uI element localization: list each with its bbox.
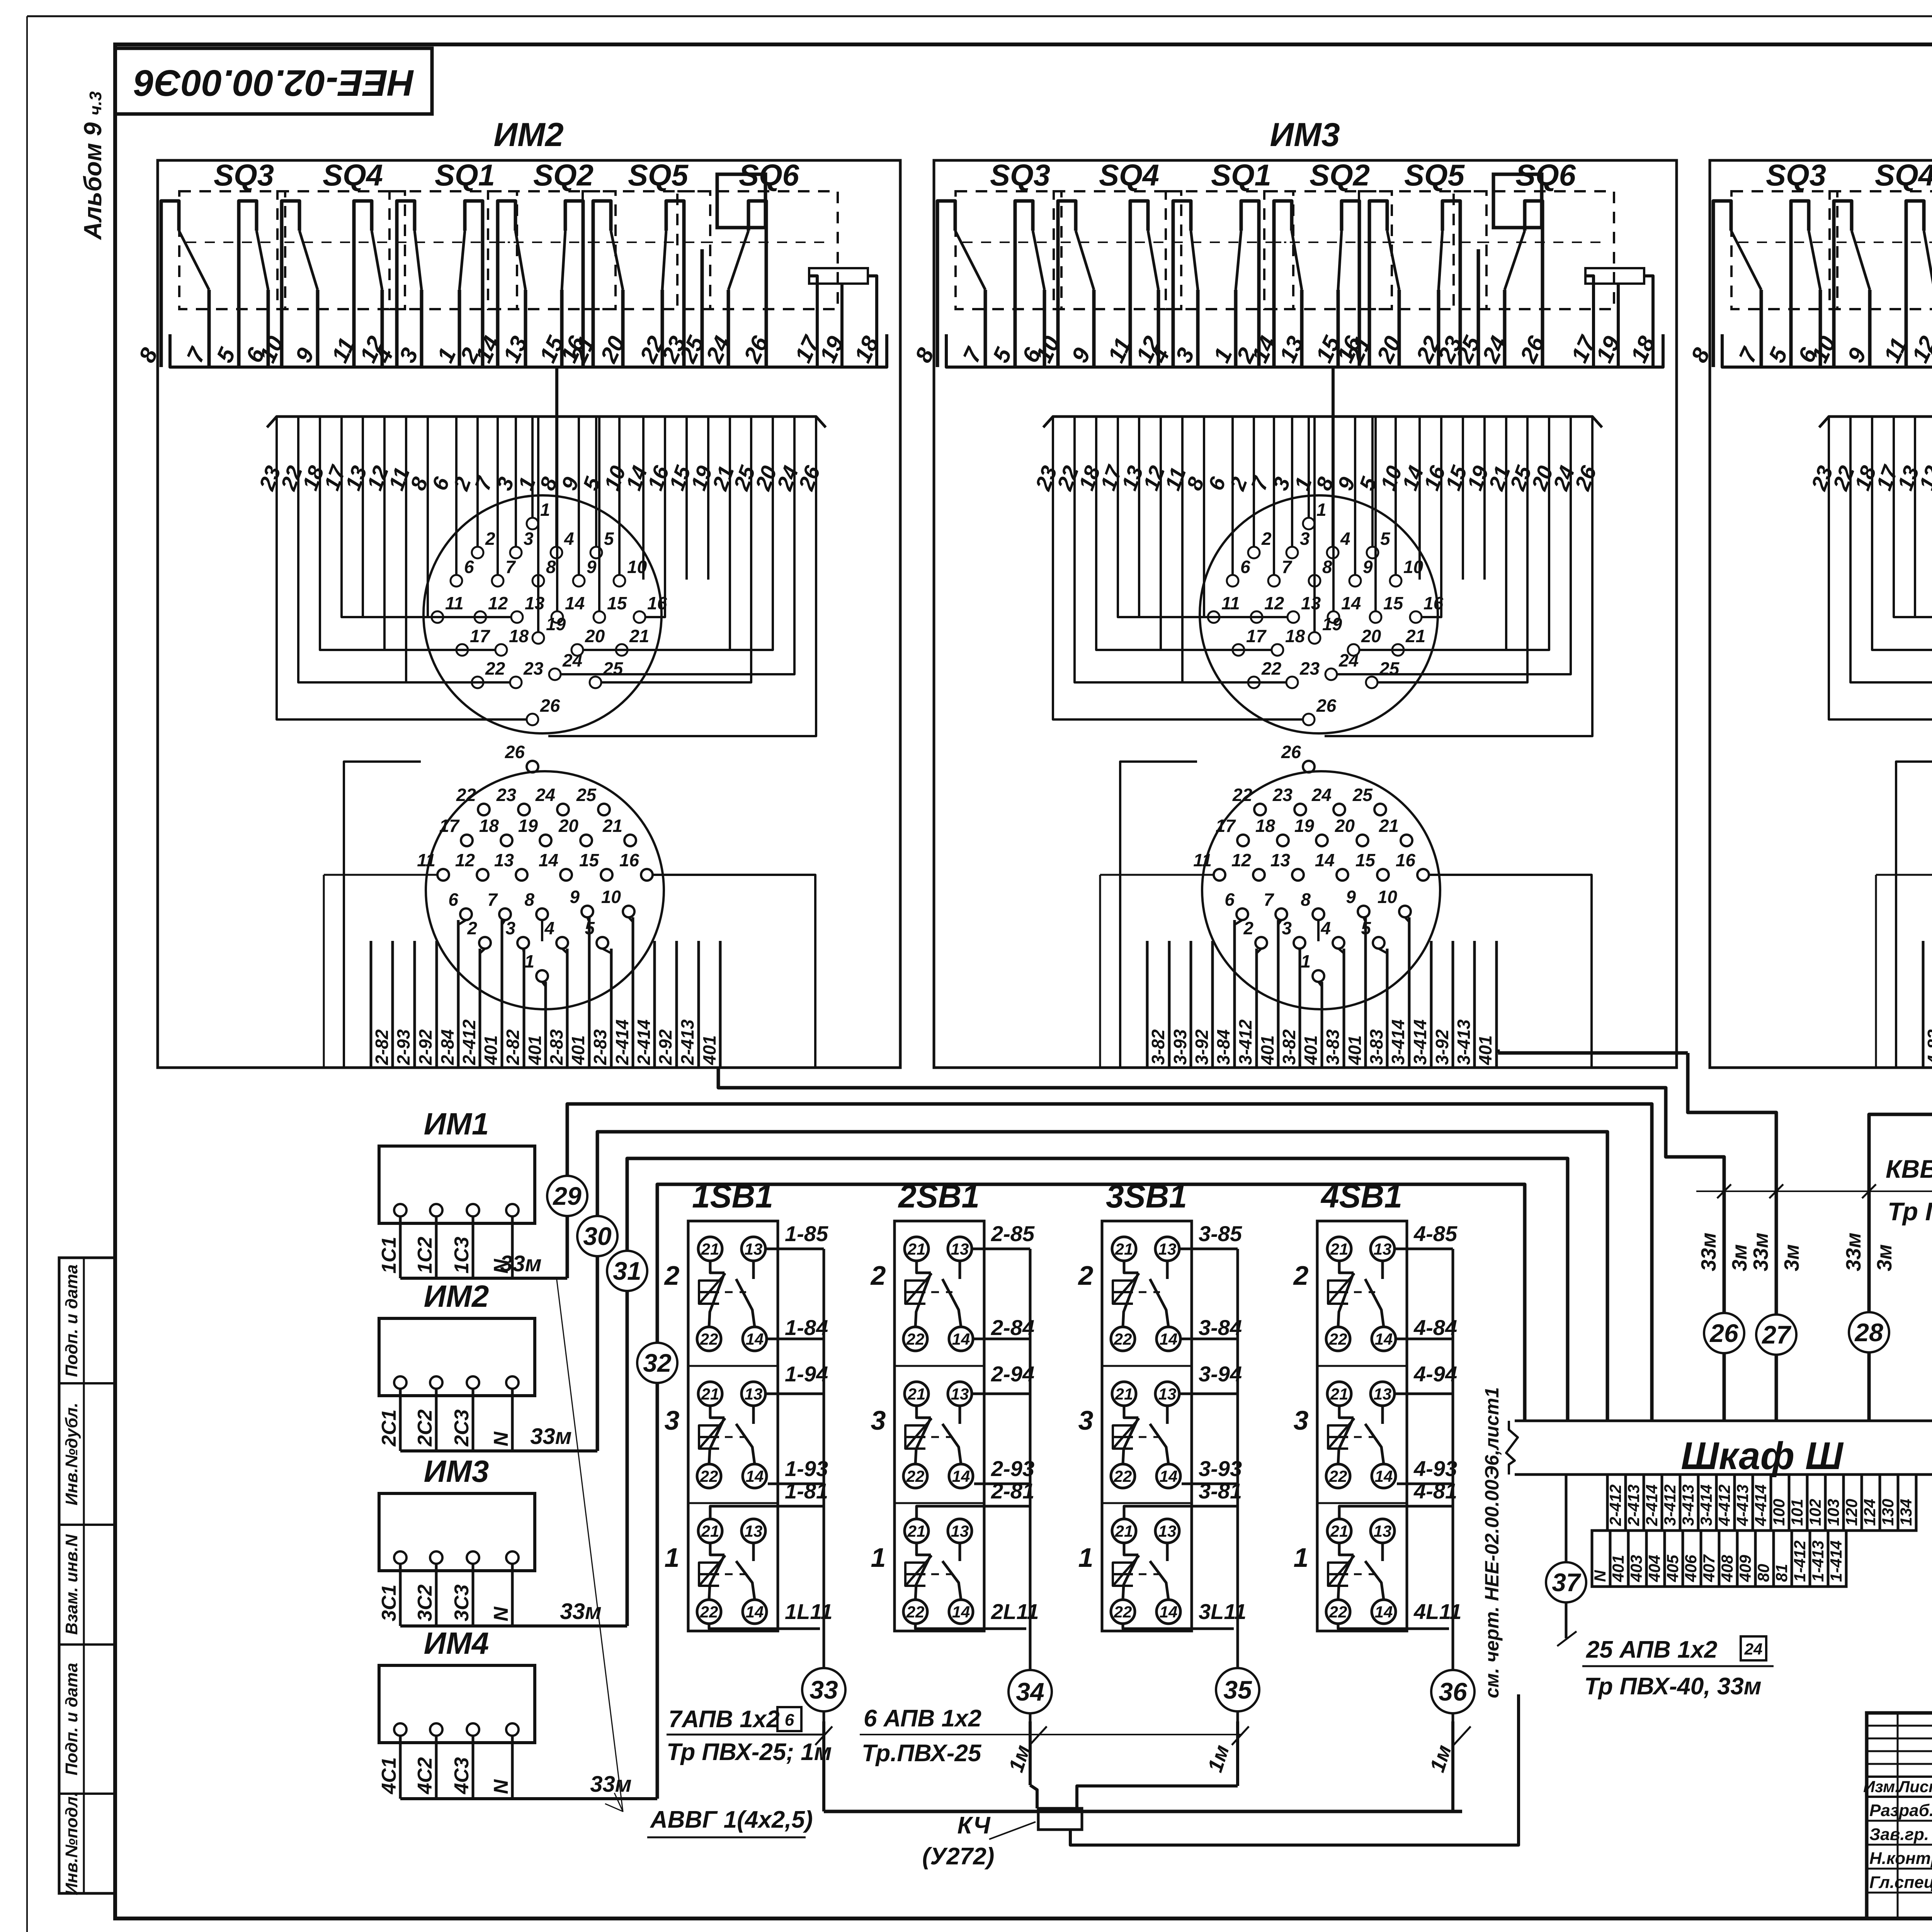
- svg-text:9: 9: [1363, 557, 1373, 577]
- pin 7 of lower connector ИМ2: [499, 908, 511, 920]
- svg-text:Тр.ПВХ-25: Тр.ПВХ-25: [862, 1740, 982, 1767]
- svg-text:4-412: 4-412: [1715, 1485, 1733, 1526]
- svg-text:11: 11: [1221, 593, 1240, 613]
- cabinet Шкаф Ш: [1515, 1421, 1932, 1475]
- svg-text:SQ4: SQ4: [1875, 158, 1932, 192]
- pin 2 of upper connector ИМ2: [472, 547, 483, 558]
- svg-text:Лист: Лист: [1897, 1777, 1932, 1796]
- svg-text:37: 37: [1552, 1568, 1582, 1597]
- pin 5 of lower connector ИМ3: [1373, 937, 1384, 949]
- svg-text:100: 100: [1770, 1499, 1788, 1526]
- pin 16 of lower connector ИМ2: [641, 869, 653, 881]
- svg-text:26: 26: [1316, 696, 1337, 716]
- pin 4 of lower connector ИМ2: [556, 937, 568, 949]
- actuator of section 3 of 1SB1: [699, 1425, 719, 1449]
- svg-text:3м: 3м: [1780, 1244, 1803, 1271]
- pin 18 of lower connector ИМ2: [501, 835, 512, 846]
- pin 6 of upper connector ИМ2: [451, 575, 462, 587]
- title block header row Изм Лист Ндокум Подп Дата: [1867, 1776, 1932, 1778]
- svg-text:1: 1: [665, 1543, 680, 1573]
- svg-text:25: 25: [1352, 785, 1373, 805]
- pin 7 of lower connector ИМ3: [1276, 908, 1287, 920]
- wire bundle bracket of ИМ3: [1043, 417, 1602, 427]
- svg-text:29: 29: [552, 1182, 582, 1210]
- terminal 2С2 of ИМ2: [430, 1376, 442, 1389]
- terminal 2С3 of ИМ2: [467, 1376, 479, 1389]
- svg-text:1-412: 1-412: [1791, 1541, 1809, 1582]
- svg-text:3-82: 3-82: [1279, 1029, 1299, 1065]
- pin 21 of upper connector ИМ3: [1392, 644, 1404, 656]
- terminal 2С1 of ИМ2: [394, 1376, 406, 1389]
- terminal 1С2 of ИМ1: [430, 1204, 442, 1216]
- outgoing bus of ИМ3: [400, 1624, 627, 1628]
- bottom bus of ИМ3: [946, 334, 1663, 367]
- contact section 1 of 2SB1: [895, 1502, 984, 1504]
- svg-text:20: 20: [585, 626, 605, 646]
- svg-text:409: 409: [1736, 1554, 1754, 1582]
- svg-text:1: 1: [1294, 1543, 1309, 1573]
- pin 14 of lower connector ИМ3: [1337, 869, 1348, 881]
- svg-text:2: 2: [485, 529, 495, 549]
- svg-text:15: 15: [607, 593, 628, 613]
- title block small grid rows: [1867, 1725, 1932, 1727]
- svg-text:21: 21: [701, 1385, 719, 1403]
- pin 10 of lower connector ИМ2: [623, 906, 634, 917]
- pin 18 of lower connector ИМ3: [1277, 835, 1289, 846]
- pin 12 of lower connector ИМ2: [477, 869, 488, 881]
- riser run from ИМ2 box (marker 30) to cabinet: [597, 1132, 1607, 1451]
- terminal 3С1 of ИМ3: [394, 1551, 406, 1564]
- svg-text:23: 23: [523, 658, 544, 679]
- actuator of section 3 of 2SB1: [905, 1425, 925, 1449]
- harness outline around lower connector of ИМ3: [1120, 762, 1197, 1068]
- svg-text:1: 1: [1316, 500, 1327, 520]
- svg-text:14: 14: [1375, 1467, 1393, 1485]
- svg-text:1С1: 1С1: [378, 1237, 400, 1274]
- svg-text:22: 22: [1329, 1467, 1347, 1485]
- svg-text:2-82: 2-82: [372, 1029, 392, 1065]
- unit block ИМ4: [1710, 160, 1932, 1068]
- svg-text:407: 407: [1700, 1554, 1718, 1582]
- svg-text:(У272): (У272): [922, 1843, 995, 1870]
- svg-text:3L11: 3L11: [1199, 1599, 1246, 1624]
- pin 2 of lower connector ИМ2: [479, 937, 491, 949]
- diagonal cable leader across risers: [556, 1277, 623, 1811]
- pin 5 of upper connector ИМ3: [1367, 547, 1378, 558]
- svg-text:2-83: 2-83: [590, 1029, 610, 1065]
- svg-text:19: 19: [1322, 614, 1342, 634]
- svg-text:7: 7: [1264, 889, 1274, 910]
- lower connector circle of ИМ3: [1202, 771, 1440, 1009]
- svg-text:21: 21: [907, 1240, 926, 1258]
- svg-text:102: 102: [1806, 1499, 1824, 1526]
- wires from SB columns to bottom bus: [822, 1721, 825, 1811]
- svg-text:13: 13: [951, 1522, 969, 1540]
- svg-text:ИМ2: ИМ2: [424, 1279, 489, 1313]
- svg-text:33м: 33м: [1749, 1233, 1772, 1271]
- pin 8 of lower connector ИМ3: [1313, 908, 1324, 920]
- svg-text:2SB1: 2SB1: [898, 1178, 980, 1214]
- svg-text:25: 25: [576, 785, 597, 805]
- svg-text:9: 9: [570, 887, 580, 907]
- pin 22 of lower connector ИМ3: [1254, 804, 1266, 815]
- svg-text:2-93: 2-93: [991, 1456, 1034, 1481]
- svg-text:SQ1: SQ1: [435, 158, 495, 192]
- cable marker 28: [1849, 1312, 1889, 1352]
- contact section 3 of 2SB1: [895, 1365, 984, 1367]
- svg-text:2: 2: [1243, 918, 1253, 938]
- svg-text:4-82: 4-82: [1924, 1029, 1932, 1065]
- wire bundle bracket of ИМ4: [1819, 417, 1932, 427]
- svg-text:3-85: 3-85: [1199, 1221, 1242, 1246]
- svg-text:5: 5: [1380, 529, 1391, 549]
- pin 4 of upper connector ИМ2: [551, 547, 562, 558]
- svg-text:21: 21: [1330, 1240, 1349, 1258]
- contact section 3 of 4SB1: [1317, 1365, 1407, 1367]
- svg-text:КВВГ19х1: КВВГ19х1: [1886, 1155, 1932, 1183]
- svg-text:Тр ПВХ-25; 1м: Тр ПВХ-25; 1м: [667, 1739, 832, 1765]
- actuator of section 1 of 1SB1: [699, 1563, 719, 1586]
- pin 26 of upper connector ИМ3: [1303, 714, 1315, 725]
- svg-text:25: 25: [1379, 658, 1400, 679]
- terminal N of ИМ1: [506, 1204, 519, 1216]
- svg-text:11: 11: [1193, 850, 1212, 870]
- terminal N of ИМ2: [506, 1376, 519, 1389]
- pin 15 of upper connector ИМ3: [1370, 611, 1381, 623]
- actuator of section 2 of 1SB1: [699, 1281, 719, 1304]
- svg-text:N: N: [490, 1606, 512, 1621]
- svg-text:SQ5: SQ5: [628, 158, 689, 192]
- svg-text:401: 401: [481, 1035, 501, 1065]
- actuator of section 2 of 2SB1: [905, 1281, 925, 1304]
- terminal resistor of ИМ2: [809, 268, 868, 284]
- contact section 1 of 4SB1: [1317, 1502, 1407, 1504]
- cable marker 31: [607, 1251, 647, 1291]
- outgoing bus of ИМ1: [400, 1277, 567, 1280]
- svg-text:27: 27: [1761, 1320, 1792, 1349]
- svg-text:13: 13: [745, 1240, 763, 1258]
- contact section 1 of 3SB1: [1102, 1502, 1192, 1504]
- svg-text:19: 19: [1294, 816, 1315, 836]
- svg-text:ИМ1: ИМ1: [424, 1107, 489, 1141]
- pin 3 of upper connector ИМ2: [510, 547, 522, 558]
- svg-text:22: 22: [700, 1603, 718, 1621]
- pin 11 of lower connector ИМ3: [1214, 869, 1225, 881]
- svg-text:23: 23: [496, 785, 517, 805]
- pin 12 of upper connector ИМ2: [474, 611, 486, 623]
- svg-text:4: 4: [1340, 529, 1350, 549]
- pin 25 of lower connector ИМ2: [598, 804, 610, 815]
- SQ6 head box of ИМ2: [717, 174, 765, 228]
- svg-text:3: 3: [665, 1405, 680, 1435]
- pin 1 of lower connector ИМ2: [536, 970, 548, 982]
- svg-text:Инв.№дубл.: Инв.№дубл.: [62, 1403, 81, 1505]
- svg-text:3: 3: [1300, 529, 1310, 549]
- svg-text:33: 33: [810, 1675, 838, 1704]
- pin 20 of lower connector ИМ2: [580, 835, 592, 846]
- contact out wires of 3SB1: [1179, 1248, 1238, 1250]
- pin 11 of lower connector ИМ2: [437, 869, 449, 881]
- svg-text:17: 17: [470, 626, 491, 646]
- svg-text:4L11: 4L11: [1413, 1599, 1461, 1624]
- svg-text:11: 11: [417, 850, 435, 870]
- pin 26 of lower connector ИМ3: [1303, 761, 1315, 772]
- svg-text:4-94: 4-94: [1413, 1362, 1457, 1386]
- svg-text:SQ3: SQ3: [1766, 158, 1826, 192]
- svg-text:3-93: 3-93: [1170, 1029, 1190, 1065]
- unit block ИМ3: [934, 160, 1677, 1068]
- svg-text:22: 22: [1114, 1330, 1132, 1348]
- contact section 1 of 1SB1: [688, 1502, 778, 1504]
- svg-text:4: 4: [1320, 918, 1331, 938]
- svg-text:3: 3: [505, 918, 515, 938]
- svg-text:23: 23: [1299, 658, 1320, 679]
- bottom bus of ИМ2: [170, 334, 887, 367]
- svg-text:3-81: 3-81: [1199, 1479, 1242, 1503]
- svg-text:2-414: 2-414: [1643, 1485, 1661, 1526]
- svg-text:21: 21: [1330, 1385, 1349, 1403]
- pin 6 of lower connector ИМ3: [1236, 908, 1248, 920]
- pin 12 of lower connector ИМ3: [1253, 869, 1265, 881]
- svg-text:401: 401: [1257, 1035, 1277, 1065]
- pin 19 of lower connector ИМ3: [1316, 835, 1328, 846]
- terminal 1С3 of ИМ1: [467, 1204, 479, 1216]
- wire from cabinet bottom to marker 37: [1565, 1475, 1568, 1638]
- svg-text:13: 13: [1301, 593, 1321, 613]
- pin 16 of upper connector ИМ2: [634, 611, 645, 623]
- harness outline around lower connector of ИМ4: [1896, 762, 1932, 1068]
- cable marker 29: [547, 1176, 587, 1216]
- actuator of section 1 of 3SB1: [1113, 1563, 1133, 1586]
- svg-text:405: 405: [1663, 1554, 1682, 1582]
- margin cell Взам. инв.N: [59, 1524, 115, 1526]
- contact out wires of 1SB1: [765, 1248, 824, 1250]
- pin 19 of upper connector ИМ2: [532, 632, 544, 644]
- svg-text:22: 22: [1261, 658, 1282, 679]
- terminal strip A lower below cabinet: [1592, 1531, 1610, 1587]
- svg-text:1: 1: [871, 1543, 886, 1573]
- svg-text:21: 21: [1115, 1240, 1133, 1258]
- pin 14 of lower connector ИМ2: [560, 869, 572, 881]
- svg-text:401: 401: [525, 1035, 545, 1065]
- svg-text:1-414: 1-414: [1827, 1541, 1845, 1582]
- terminal 4С1 of ИМ4: [394, 1723, 406, 1736]
- pin 23 of lower connector ИМ2: [518, 804, 530, 815]
- svg-text:3-414: 3-414: [1697, 1485, 1715, 1526]
- lower connector circle of ИМ2: [426, 771, 664, 1009]
- cable marker 34: [1009, 1670, 1052, 1713]
- pin 16 of upper connector ИМ3: [1410, 611, 1422, 623]
- margin cell Инв.№дубл.: [59, 1382, 115, 1384]
- svg-text:21: 21: [1379, 816, 1399, 836]
- wiring column of 4SB1: [1452, 1249, 1454, 1721]
- svg-text:406: 406: [1682, 1554, 1700, 1582]
- svg-text:4-81: 4-81: [1413, 1479, 1457, 1503]
- svg-text:4С2: 4С2: [414, 1757, 436, 1794]
- svg-text:13: 13: [1374, 1522, 1392, 1540]
- actuator of section 1 of 4SB1: [1328, 1563, 1348, 1586]
- svg-text:2-84: 2-84: [437, 1029, 457, 1065]
- svg-text:24: 24: [1744, 1640, 1763, 1658]
- svg-text:3-414: 3-414: [1388, 1019, 1408, 1065]
- svg-text:SQ4: SQ4: [323, 158, 383, 192]
- pin 6 of lower connector ИМ2: [460, 908, 472, 920]
- svg-text:8: 8: [1322, 557, 1332, 577]
- pin 4 of lower connector ИМ3: [1333, 937, 1344, 949]
- pin 8 of lower connector ИМ2: [536, 908, 548, 920]
- svg-text:1L11: 1L11: [785, 1599, 832, 1624]
- svg-text:3-94: 3-94: [1199, 1362, 1242, 1386]
- svg-text:14: 14: [1375, 1330, 1393, 1348]
- svg-text:4: 4: [564, 529, 574, 549]
- svg-text:3С3: 3С3: [451, 1585, 473, 1621]
- svg-text:21: 21: [1405, 626, 1425, 646]
- pin 14 of upper connector ИМ3: [1328, 611, 1339, 623]
- svg-text:14: 14: [1375, 1603, 1393, 1621]
- svg-text:25 АПВ 1х2: 25 АПВ 1х2: [1586, 1636, 1717, 1663]
- cable marker 33: [802, 1668, 845, 1711]
- pin 24 of upper connector ИМ3: [1325, 668, 1337, 680]
- svg-text:7АПВ 1х2: 7АПВ 1х2: [668, 1706, 780, 1733]
- svg-text:2С2: 2С2: [414, 1410, 436, 1447]
- terminal comb of ИМ2: [370, 941, 372, 1068]
- svg-text:33м: 33м: [590, 1772, 631, 1797]
- svg-text:22: 22: [906, 1330, 925, 1348]
- svg-text:3С2: 3С2: [414, 1585, 436, 1621]
- wire run from ИМ2 terminal 401 to marker 26: [718, 1068, 1724, 1421]
- svg-text:2: 2: [664, 1260, 680, 1291]
- svg-text:19: 19: [546, 614, 566, 634]
- svg-text:2: 2: [1261, 529, 1272, 549]
- svg-text:Взам. инв.N: Взам. инв.N: [62, 1534, 81, 1635]
- svg-text:14: 14: [952, 1603, 970, 1621]
- svg-text:13: 13: [745, 1522, 763, 1540]
- svg-text:4-413: 4-413: [1733, 1485, 1752, 1526]
- pin 22 of lower connector ИМ2: [478, 804, 490, 815]
- svg-text:33м: 33м: [1842, 1233, 1865, 1271]
- svg-text:8: 8: [1301, 889, 1311, 910]
- svg-text:18: 18: [1255, 816, 1276, 836]
- svg-text:8: 8: [524, 889, 534, 910]
- terminal comb of ИМ3: [1146, 941, 1149, 1068]
- svg-text:16: 16: [619, 850, 639, 870]
- svg-text:13: 13: [951, 1385, 969, 1403]
- svg-text:2-82: 2-82: [503, 1029, 523, 1065]
- svg-text:3-84: 3-84: [1199, 1315, 1242, 1340]
- pin 24 of upper connector ИМ2: [549, 668, 561, 680]
- riser run from ИМ4 box (marker 32) to cabinet: [657, 1184, 1525, 1799]
- svg-text:1-84: 1-84: [785, 1315, 828, 1340]
- svg-text:17: 17: [1246, 626, 1267, 646]
- svg-text:35: 35: [1223, 1675, 1252, 1704]
- svg-text:130: 130: [1879, 1499, 1897, 1526]
- pin 24 of lower connector ИМ2: [557, 804, 569, 815]
- machine box ИМ2: [379, 1318, 535, 1396]
- svg-text:2-92: 2-92: [415, 1029, 435, 1065]
- svg-text:3-83: 3-83: [1366, 1029, 1386, 1065]
- pin 7 of upper connector ИМ3: [1268, 575, 1280, 587]
- pin 21 of lower connector ИМ3: [1401, 835, 1412, 846]
- svg-text:3-414: 3-414: [1410, 1019, 1430, 1065]
- svg-text:26: 26: [505, 742, 525, 762]
- svg-text:2: 2: [1293, 1260, 1309, 1291]
- pin 24 of lower connector ИМ3: [1333, 804, 1345, 815]
- svg-text:3-84: 3-84: [1213, 1029, 1233, 1065]
- svg-text:2-414: 2-414: [634, 1019, 654, 1065]
- svg-text:14: 14: [1160, 1330, 1178, 1348]
- svg-text:1-413: 1-413: [1809, 1541, 1827, 1582]
- svg-text:9: 9: [587, 557, 597, 577]
- svg-text:14: 14: [952, 1330, 970, 1348]
- svg-text:22: 22: [1114, 1467, 1132, 1485]
- svg-text:1: 1: [1078, 1543, 1094, 1573]
- svg-text:1: 1: [524, 951, 534, 971]
- svg-text:15: 15: [1383, 593, 1404, 613]
- svg-text:ИМ4: ИМ4: [424, 1626, 489, 1660]
- svg-text:6: 6: [1225, 889, 1235, 910]
- svg-text:5: 5: [604, 529, 614, 549]
- pin 23 of upper connector ИМ2: [510, 677, 522, 688]
- pin drop wires of lower connector ИМ2: [458, 920, 466, 925]
- terminal comb of ИМ4: [1922, 941, 1925, 1068]
- svg-text:Н.контр.: Н.контр.: [1869, 1849, 1932, 1868]
- wiring column of 3SB1: [1236, 1249, 1239, 1721]
- svg-text:3: 3: [1282, 918, 1292, 938]
- pin 19 of upper connector ИМ3: [1309, 632, 1320, 644]
- svg-text:3: 3: [1078, 1405, 1094, 1435]
- svg-text:408: 408: [1718, 1554, 1736, 1582]
- svg-text:22: 22: [700, 1467, 718, 1485]
- svg-text:26: 26: [1709, 1319, 1739, 1347]
- svg-text:3-413: 3-413: [1679, 1485, 1697, 1526]
- margin cell Подп. и дата: [59, 1643, 115, 1646]
- pin 4 of upper connector ИМ3: [1327, 547, 1338, 558]
- pin 8 of upper connector ИМ2: [532, 575, 544, 587]
- svg-text:3-93: 3-93: [1199, 1456, 1242, 1481]
- svg-text:6 АПВ 1х2: 6 АПВ 1х2: [864, 1705, 981, 1732]
- svg-text:13: 13: [1158, 1385, 1177, 1403]
- svg-text:2С1: 2С1: [378, 1410, 400, 1447]
- svg-text:134: 134: [1897, 1499, 1915, 1526]
- svg-text:2-83: 2-83: [546, 1029, 566, 1065]
- svg-text:6: 6: [1240, 557, 1250, 577]
- pin 17 of lower connector ИМ3: [1237, 835, 1249, 846]
- svg-text:2-93: 2-93: [393, 1029, 413, 1065]
- svg-text:3SB1: 3SB1: [1106, 1178, 1187, 1214]
- svg-text:18: 18: [509, 626, 529, 646]
- svg-text:22: 22: [1232, 785, 1253, 805]
- wiring column of 1SB1: [823, 1249, 825, 1721]
- pin 19 of lower connector ИМ2: [540, 835, 551, 846]
- outgoing bus of ИМ2: [400, 1449, 597, 1452]
- contact out wires of 4SB1: [1395, 1248, 1453, 1250]
- pin 22 of upper connector ИМ3: [1248, 677, 1260, 688]
- svg-text:2: 2: [1078, 1260, 1094, 1291]
- svg-text:6: 6: [785, 1711, 794, 1730]
- pin 5 of lower connector ИМ2: [597, 937, 608, 949]
- top-left stamp box HEE-02.00.00Э6 rotated 180: [115, 48, 432, 114]
- terminal 3С3 of ИМ3: [467, 1551, 479, 1564]
- svg-text:SQ3: SQ3: [214, 158, 274, 192]
- svg-text:124: 124: [1861, 1499, 1879, 1526]
- svg-text:18: 18: [1285, 626, 1305, 646]
- svg-text:14: 14: [1160, 1603, 1178, 1621]
- svg-text:401: 401: [699, 1035, 719, 1065]
- pin 20 of lower connector ИМ3: [1357, 835, 1368, 846]
- title block frame: [1867, 1713, 1932, 1918]
- svg-text:2-413: 2-413: [1624, 1485, 1643, 1526]
- svg-text:120: 120: [1842, 1499, 1861, 1526]
